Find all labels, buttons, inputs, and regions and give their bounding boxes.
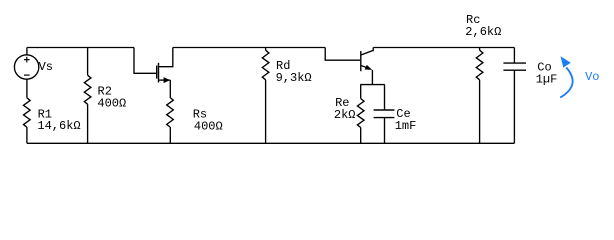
svg-text:Vs: Vs <box>39 60 53 74</box>
svg-text:2,6kΩ: 2,6kΩ <box>465 25 501 39</box>
svg-text:14,6kΩ: 14,6kΩ <box>37 119 80 133</box>
svg-text:1µF: 1µF <box>536 72 558 86</box>
svg-text:400Ω: 400Ω <box>97 97 126 111</box>
svg-text:2kΩ: 2kΩ <box>334 108 356 122</box>
svg-text:Vo: Vo <box>585 70 599 84</box>
svg-text:9,3kΩ: 9,3kΩ <box>276 71 312 85</box>
svg-text:400Ω: 400Ω <box>194 119 223 133</box>
svg-text:1mF: 1mF <box>395 119 417 133</box>
